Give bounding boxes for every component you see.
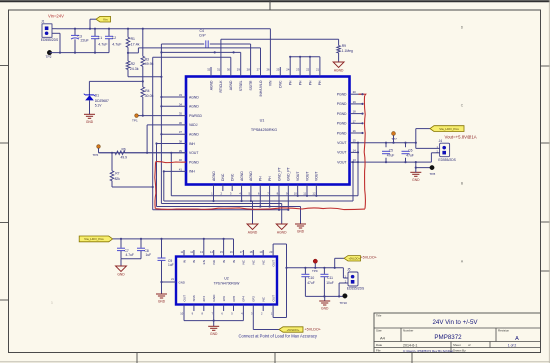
svg-text:DDZ9687: DDZ9687 — [95, 99, 109, 103]
svg-text:INH: INH — [189, 142, 195, 146]
svg-text:0P8: 0P8 — [232, 296, 236, 302]
svg-text:4.7uF: 4.7uF — [98, 42, 108, 46]
svg-text:TPS7A4700RGW: TPS7A4700RGW — [214, 282, 241, 286]
svg-text:J4: J4 — [439, 139, 443, 143]
svg-text:IN: IN — [232, 260, 236, 263]
svg-text:AGND: AGND — [189, 95, 199, 99]
svg-text:VOUT: VOUT — [305, 172, 309, 181]
svg-text:Date: Date — [376, 343, 382, 347]
svg-text:ED555/2DS: ED555/2DS — [347, 287, 365, 291]
svg-text:1uF: 1uF — [168, 263, 174, 267]
svg-text:2014-6-1: 2014-6-1 — [403, 344, 417, 348]
svg-text:J5: J5 — [347, 268, 351, 272]
svg-text:23: 23 — [296, 68, 300, 72]
svg-text:DNC: DNC — [231, 173, 235, 181]
svg-text:OUT: OUT — [182, 295, 186, 302]
svg-text:ED555/2DS: ED555/2DS — [438, 158, 456, 162]
svg-text:0P2: 0P2 — [252, 296, 256, 302]
svg-text:5.1V: 5.1V — [95, 103, 103, 107]
svg-text:TPS84250RKG: TPS84250RKG — [251, 128, 277, 132]
svg-text:INH/UVLO: INH/UVLO — [259, 80, 263, 96]
svg-text:U1: U1 — [260, 119, 265, 123]
svg-text:SS/TR: SS/TR — [249, 80, 253, 91]
svg-text:C5: C5 — [389, 149, 393, 153]
svg-text:C11: C11 — [327, 276, 333, 280]
svg-text:+5VLDO+: +5VLDO+ — [361, 256, 377, 260]
svg-text:GND: GND — [412, 178, 420, 182]
svg-text:AGND: AGND — [248, 230, 258, 234]
svg-text:PWRGD: PWRGD — [189, 114, 203, 118]
svg-text:29: 29 — [237, 68, 241, 72]
svg-text:AGND: AGND — [189, 105, 199, 109]
svg-text:GND: GND — [321, 307, 329, 311]
svg-text:A4: A4 — [380, 336, 386, 341]
svg-text:4.7uF: 4.7uF — [126, 253, 134, 257]
svg-text:32: 32 — [207, 68, 211, 72]
svg-text:21: 21 — [316, 68, 320, 72]
svg-text:NC: NC — [252, 259, 256, 264]
svg-text:TP1: TP1 — [132, 119, 138, 123]
svg-text:AGND: AGND — [249, 171, 253, 181]
svg-text:GND: GND — [117, 272, 125, 276]
svg-text:+5VLDO+: +5VLDO+ — [305, 327, 321, 331]
svg-text:VADJ: VADJ — [189, 123, 198, 127]
svg-text:AGND: AGND — [209, 80, 213, 90]
svg-text:Vout=+5.8V@1A: Vout=+5.8V@1A — [445, 134, 477, 139]
svg-text:TP2: TP2 — [46, 55, 52, 59]
svg-text:12: 12 — [312, 192, 316, 196]
svg-text:16: 16 — [353, 129, 357, 133]
svg-text:of: of — [468, 343, 471, 347]
svg-text:R6: R6 — [122, 148, 126, 152]
svg-text:CnP: CnP — [199, 34, 206, 38]
svg-text:+5VLDO+: +5VLDO+ — [348, 257, 360, 261]
svg-text:IN: IN — [222, 260, 226, 263]
svg-text:35: 35 — [179, 112, 183, 116]
svg-text:Number: Number — [403, 329, 413, 333]
svg-text:Revision: Revision — [498, 329, 509, 333]
svg-text:STSEL: STSEL — [239, 80, 243, 91]
svg-text:TP7: TP7 — [391, 137, 397, 141]
svg-text:PMP8372: PMP8372 — [434, 334, 462, 341]
svg-text:Title: Title — [376, 314, 382, 318]
svg-text:27: 27 — [257, 68, 261, 72]
svg-text:26: 26 — [266, 68, 270, 72]
svg-text:GND_PT: GND_PT — [287, 167, 291, 181]
svg-text:47uF: 47uF — [406, 154, 414, 158]
svg-text:R4: R4 — [145, 89, 149, 93]
svg-text:GND: GND — [158, 300, 166, 304]
svg-text:Vin: Vin — [103, 18, 108, 22]
svg-text:10: 10 — [294, 192, 298, 196]
svg-text:37: 37 — [179, 130, 183, 134]
svg-text:NC: NC — [242, 259, 246, 264]
svg-text:A: A — [515, 336, 519, 342]
svg-text:VOUT: VOUT — [337, 160, 346, 164]
svg-text:DNC: DNC — [279, 80, 283, 88]
svg-text:OUT: OUT — [271, 260, 275, 267]
svg-text:VIN: VIN — [269, 80, 273, 86]
svg-text:GND_PT: GND_PT — [277, 167, 281, 181]
svg-text:17: 17 — [353, 119, 357, 123]
svg-text:28: 28 — [247, 68, 251, 72]
svg-text:C2: C2 — [112, 36, 116, 40]
svg-text:ED555/2DS: ED555/2DS — [41, 38, 59, 42]
svg-text:C9: C9 — [168, 259, 172, 263]
svg-text:47uF: 47uF — [307, 281, 315, 285]
svg-text:0P4: 0P4 — [242, 296, 246, 302]
svg-text:AGND: AGND — [189, 133, 199, 137]
svg-text:14: 14 — [353, 148, 357, 152]
svg-text:39: 39 — [179, 149, 183, 153]
svg-text:AGND: AGND — [334, 68, 344, 72]
svg-text:Via_LDO_Pos: Via_LDO_Pos — [439, 127, 459, 131]
svg-text:TP6: TP6 — [93, 153, 99, 157]
svg-text:36: 36 — [179, 121, 183, 125]
svg-text:PGND: PGND — [337, 112, 347, 116]
svg-text:File: File — [376, 348, 381, 352]
svg-text:15: 15 — [353, 139, 357, 143]
svg-text:C1: C1 — [98, 36, 102, 40]
svg-text:Vin=24V: Vin=24V — [48, 14, 64, 19]
svg-text:20: 20 — [353, 90, 357, 94]
svg-text:PH: PH — [298, 80, 302, 85]
svg-text:EN: EN — [202, 260, 206, 264]
svg-text:C4: C4 — [200, 29, 204, 33]
svg-text:AGND: AGND — [212, 171, 216, 181]
svg-text:PH: PH — [289, 80, 293, 85]
svg-text:R2: R2 — [131, 62, 135, 66]
svg-text:NR: NR — [212, 259, 216, 264]
svg-text:IN: IN — [182, 260, 186, 263]
svg-text:PGND: PGND — [189, 160, 199, 164]
svg-text:GND: GND — [210, 332, 218, 336]
svg-text:AGND: AGND — [277, 230, 287, 234]
svg-text:6P4: 6P4 — [202, 296, 206, 302]
svg-text:PGND: PGND — [337, 122, 347, 126]
svg-text:Via_LDO_Pos: Via_LDO_Pos — [84, 237, 104, 241]
svg-text:TP9: TP9 — [312, 269, 318, 273]
svg-text:AGND: AGND — [229, 80, 233, 90]
svg-text:AGND: AGND — [240, 171, 244, 181]
svg-text:VOUT: VOUT — [315, 172, 319, 181]
svg-text:25: 25 — [276, 68, 280, 72]
svg-text:GND: GND — [86, 120, 94, 124]
svg-text:C10: C10 — [308, 276, 314, 280]
svg-text:11: 11 — [303, 192, 306, 196]
svg-text:22uF: 22uF — [81, 38, 90, 42]
svg-text:1P6: 1P6 — [222, 296, 226, 302]
svg-text:C:\Users\..\PMP8372 Rev B1.Sch: C:\Users\..\PMP8372 Rev B1.SchDoc — [403, 349, 454, 353]
svg-text:GND: GND — [212, 294, 216, 302]
svg-text:OUT: OUT — [271, 295, 275, 302]
svg-text:R3: R3 — [145, 57, 149, 61]
svg-text:IN: IN — [192, 260, 196, 263]
svg-text:+5VLDO+: +5VLDO+ — [287, 328, 300, 332]
svg-text:GND: GND — [179, 280, 185, 284]
svg-text:TP8: TP8 — [430, 172, 436, 176]
svg-text:33: 33 — [179, 93, 183, 97]
svg-text:19: 19 — [353, 100, 357, 104]
svg-text:PH: PH — [268, 176, 272, 181]
svg-text:Sheet: Sheet — [453, 343, 461, 347]
svg-text:RT/CLK: RT/CLK — [219, 80, 223, 93]
svg-text:C6: C6 — [408, 149, 412, 153]
svg-text:Connect at Point of Load for M: Connect at Point of Load for Max Accurac… — [239, 334, 318, 339]
svg-text:NC: NC — [262, 259, 266, 264]
svg-text:18: 18 — [353, 110, 357, 114]
svg-text:NC: NC — [262, 296, 266, 301]
svg-text:VOUT: VOUT — [337, 141, 346, 145]
svg-text:34: 34 — [179, 102, 183, 106]
svg-text:PGND: PGND — [337, 131, 347, 135]
svg-text:PGND: PGND — [337, 102, 347, 106]
svg-text:24.3k: 24.3k — [130, 67, 139, 71]
svg-text:Drawn By:: Drawn By: — [453, 348, 467, 352]
svg-text:30: 30 — [227, 68, 231, 72]
svg-text:R9: R9 — [342, 44, 346, 48]
svg-text:4.7uF: 4.7uF — [112, 42, 122, 46]
svg-text:VOUT: VOUT — [189, 151, 198, 155]
svg-text:PH: PH — [308, 80, 312, 85]
svg-text:GND: GND — [297, 230, 305, 234]
svg-text:17.4k: 17.4k — [131, 43, 140, 47]
svg-text:D1: D1 — [95, 94, 99, 98]
svg-text:INH: INH — [189, 170, 195, 174]
svg-text:PGND: PGND — [337, 93, 347, 97]
svg-text:1 of 2: 1 of 2 — [508, 343, 517, 347]
svg-text:41: 41 — [179, 167, 183, 171]
svg-text:38: 38 — [179, 140, 183, 144]
svg-text:82k: 82k — [115, 177, 121, 181]
svg-text:PH: PH — [318, 80, 322, 85]
svg-text:PH: PH — [259, 176, 263, 181]
svg-text:Size: Size — [376, 329, 382, 333]
svg-text:24: 24 — [286, 68, 290, 72]
svg-text:J1: J1 — [41, 19, 45, 23]
svg-text:47uF: 47uF — [387, 154, 395, 158]
svg-text:VOUT: VOUT — [296, 172, 300, 181]
svg-text:22: 22 — [306, 68, 310, 72]
svg-text:1uF: 1uF — [146, 253, 152, 257]
svg-text:SNS: SNS — [192, 295, 196, 301]
svg-text:U2: U2 — [224, 276, 229, 280]
svg-text:40: 40 — [179, 158, 183, 162]
svg-text:R7: R7 — [115, 172, 119, 176]
svg-text:1.1Meg: 1.1Meg — [342, 49, 353, 53]
svg-text:31: 31 — [217, 68, 221, 72]
svg-text:49.9: 49.9 — [121, 155, 128, 159]
svg-text:10uF: 10uF — [326, 281, 334, 285]
svg-text:DNC: DNC — [221, 173, 225, 181]
svg-text:R1: R1 — [131, 37, 135, 41]
svg-text:24V Vin to +/-5V: 24V Vin to +/-5V — [432, 319, 478, 326]
svg-text:VOUT: VOUT — [337, 151, 346, 155]
svg-text:TP10: TP10 — [340, 301, 348, 305]
